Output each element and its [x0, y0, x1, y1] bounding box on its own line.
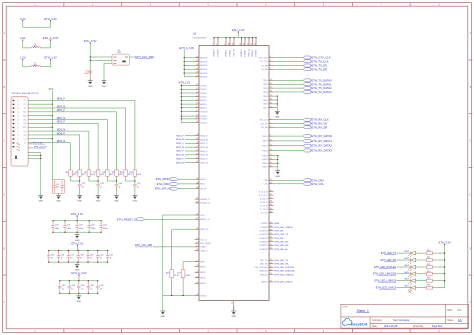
svg-text:DVDDL: DVDDL — [200, 93, 208, 95]
svg-text:27: 27 — [270, 154, 272, 156]
svg-text:RXD7: RXD7 — [262, 167, 268, 169]
svg-text:100n: 100n — [55, 228, 59, 230]
flag ETH_RX_DATA0 — [273, 135, 303, 137]
svg-text:1n: 1n — [51, 258, 53, 260]
flag ETH_RX_DATA1 — [273, 140, 303, 142]
svg-text:KSZ9031RNX: KSZ9031RNX — [192, 37, 206, 39]
wire pair join 2 — [107, 176, 116, 181]
svg-text:RJ45 JACK_USB+LAN 1X1T+4S: RJ45 JACK_USB+LAN 1X1T+4S — [11, 92, 39, 95]
svg-text:MDI1_P: MDI1_P — [200, 143, 208, 145]
pins LED outs — [269, 259, 273, 261]
svg-text:S_TX_P: S_TX_P — [260, 209, 268, 211]
svg-text:S_CLK_P: S_CLK_P — [259, 195, 269, 197]
svg-text:14: 14 — [196, 99, 198, 101]
capacitor C36 — [97, 281, 99, 286]
svg-text:Date:: Date: — [372, 325, 378, 328]
svg-text:GND: GND — [76, 301, 81, 303]
svg-text:44: 44 — [270, 222, 272, 224]
capacitor C15 — [134, 183, 136, 186]
capacitor C13 — [97, 183, 99, 186]
ground osc2 — [102, 81, 107, 84]
svg-text:10: 10 — [270, 140, 272, 142]
svg-text:AVDDL: AVDDL — [225, 49, 228, 57]
svg-text:1n: 1n — [90, 288, 92, 290]
svg-text:ETH_CLK_25M: ETH_CLK_25M — [135, 55, 154, 59]
svg-text:9: 9 — [270, 135, 271, 137]
svg-text:LDO_O: LDO_O — [200, 239, 207, 241]
capacitor C35 — [87, 281, 89, 286]
svg-text:49.9: 49.9 — [137, 174, 141, 176]
svg-text:S_OUT: S_OUT — [261, 213, 269, 215]
svg-text:6: 6 — [270, 64, 271, 66]
capacitor C23 — [88, 221, 90, 226]
svg-text:2021-10-25: 2021-10-25 — [384, 324, 398, 328]
bus bankB — [49, 250, 108, 252]
svg-text:S_CLK_N: S_CLK_N — [259, 191, 269, 193]
svg-text:Your Company: Your Company — [393, 318, 411, 322]
svg-text:DVDDL: DVDDL — [200, 116, 208, 118]
svg-text:ETH_MDIO: ETH_MDIO — [156, 177, 170, 181]
svg-text:AVDDH: AVDDH — [200, 72, 208, 75]
svg-text:ETH_RX_DATA1: ETH_RX_DATA1 — [312, 139, 333, 143]
svg-text:MDI2_M: MDI2_M — [176, 155, 184, 157]
inductor L2 — [31, 66, 41, 67]
svg-text:MDI2_M: MDI2_M — [57, 129, 66, 131]
svg-text:100n: 100n — [67, 228, 71, 230]
svg-text:DVDDH: DVDDH — [256, 49, 258, 57]
wire MDI row 6 — [28, 135, 80, 170]
svg-text:16: 16 — [196, 106, 198, 108]
svg-text:15: 15 — [251, 43, 253, 45]
svg-text:GND: GND — [96, 201, 101, 203]
svg-text:11: 11 — [233, 43, 235, 45]
svg-text:GND: GND — [275, 176, 280, 178]
svg-text:33: 33 — [196, 294, 198, 296]
svg-text:HSDAC_P: HSDAC_P — [200, 198, 210, 201]
svg-text:RX_ER: RX_ER — [261, 127, 268, 129]
svg-text:R16: R16 — [166, 273, 169, 275]
svg-text:LED3: LED3 — [404, 258, 409, 260]
svg-text:INT_N: INT_N — [200, 188, 206, 190]
flag ETH_TX_CLK — [273, 60, 303, 62]
svg-text:RCT: RCT — [23, 116, 26, 118]
wires RXD4-7 gnd — [273, 155, 277, 157]
svg-text:U1: U1 — [193, 32, 197, 36]
svg-text:ETH_TX_DATA0: ETH_TX_DATA0 — [312, 78, 333, 82]
svg-text:PME_N2: PME_N2 — [200, 229, 209, 231]
svg-text:ETH_1.2V: ETH_1.2V — [179, 81, 191, 84]
svg-text:RXD4: RXD4 — [262, 155, 268, 157]
svg-text:AVDDL: AVDDL — [200, 99, 208, 102]
svg-text:COMPU2: COMPU2 — [259, 234, 269, 236]
svg-text:73: 73 — [270, 269, 272, 271]
resistor R7 — [96, 170, 100, 176]
ground bottom — [231, 311, 236, 314]
svg-text:RD-: RD- — [24, 119, 27, 121]
svg-text:ETH_MDC: ETH_MDC — [157, 182, 170, 186]
wire MDI row 2 — [28, 112, 116, 170]
svg-text:C12: C12 — [82, 183, 85, 185]
svg-text:MDI3_P: MDI3_P — [57, 133, 66, 135]
svg-text:19: 19 — [196, 118, 198, 120]
svg-text:DGND: DGND — [200, 295, 207, 297]
svg-text:S_RX_N: S_RX_N — [260, 198, 268, 200]
svg-text:GND: GND — [231, 316, 236, 318]
svg-text:TXD3: TXD3 — [263, 92, 269, 94]
svg-text:REV:: REV: — [447, 310, 453, 312]
svg-text:8: 8 — [217, 44, 219, 45]
svg-text:C22: C22 — [79, 225, 82, 227]
svg-text:3: 3 — [270, 126, 271, 128]
svg-text:COMPU6: COMPU6 — [259, 249, 269, 251]
svg-text:ETH_LED_LINK10: ETH_LED_LINK10 — [275, 227, 294, 229]
ground pair 1 — [96, 196, 101, 199]
svg-text:RXD1: RXD1 — [262, 141, 268, 143]
svg-text:44: 44 — [270, 229, 272, 231]
svg-text:ETH_1M: ETH_1M — [275, 231, 284, 233]
svg-text:D: D — [3, 194, 5, 197]
svg-text:MDI2_P: MDI2_P — [176, 151, 184, 153]
svg-text:ETH_CRS: ETH_CRS — [312, 178, 325, 182]
svg-text:19: 19 — [270, 103, 272, 105]
svg-text:GND: GND — [160, 316, 165, 318]
svg-text:ETH_LED_EN: ETH_LED_EN — [275, 245, 289, 247]
svg-text:ETH_LED_BI: ETH_LED_BI — [275, 249, 288, 251]
wire MDI row 0 — [28, 100, 135, 170]
svg-text:44: 44 — [270, 237, 272, 239]
capacitor C26 — [58, 251, 60, 256]
svg-text:GND: GND — [114, 201, 119, 203]
svg-text:C13: C13 — [100, 183, 103, 185]
svg-text:RD+: RD+ — [23, 112, 26, 114]
pin bottom GND — [233, 301, 235, 312]
svg-text:47: 47 — [196, 68, 198, 70]
svg-text:49.9: 49.9 — [100, 174, 104, 176]
ground bankB — [76, 262, 78, 265]
svg-text:DVDDL: DVDDL — [200, 85, 208, 87]
svg-text:LED4: LED4 — [404, 265, 409, 267]
flag ETH_CRS — [273, 179, 303, 181]
svg-text:35: 35 — [270, 208, 272, 210]
svg-text:C33: C33 — [71, 285, 74, 287]
svg-text:11: 11 — [196, 88, 198, 90]
svg-text:C23: C23 — [91, 225, 94, 227]
svg-text:S_RX_P: S_RX_P — [260, 202, 268, 204]
svg-text:RESV: RESV — [200, 266, 206, 268]
wire ISET — [182, 262, 184, 270]
pins reserved — [195, 266, 199, 268]
svg-text:COMPN: COMPN — [260, 227, 268, 229]
svg-text:GND: GND — [102, 86, 107, 88]
svg-text:1n: 1n — [100, 186, 102, 188]
svg-text:21: 21 — [196, 214, 198, 216]
resistor R17 — [181, 270, 185, 278]
svg-text:R9: R9 — [112, 172, 114, 174]
svg-text:R13: R13 — [427, 271, 430, 273]
capacitor C22 — [76, 221, 78, 226]
capacitor C32 — [59, 281, 61, 286]
capacitor C10 — [89, 66, 91, 71]
svg-text:24: 24 — [196, 242, 198, 244]
ground lower-left — [160, 311, 165, 314]
svg-text:53: 53 — [196, 153, 198, 155]
svg-text:HSDAC_N: HSDAC_N — [200, 202, 210, 205]
svg-text:LED7: LED7 — [404, 286, 409, 288]
svg-text:AVDDH: AVDDH — [200, 57, 208, 60]
svg-text:TX_EN: TX_EN — [261, 65, 268, 67]
svg-text:C28: C28 — [80, 254, 83, 256]
svg-text:RXD6: RXD6 — [262, 163, 268, 165]
svg-text:TXD2: TXD2 — [263, 88, 269, 90]
svg-text:R17: R17 — [177, 273, 180, 275]
svg-text:MDI0_M: MDI0_M — [176, 139, 184, 141]
svg-text:C: C — [470, 140, 472, 143]
svg-text:RX_DV: RX_DV — [261, 123, 268, 125]
resistor R11 — [133, 170, 137, 176]
svg-text:44: 44 — [196, 56, 198, 58]
wire MDI row 5 — [28, 131, 89, 170]
svg-text:TD+: TD+ — [23, 100, 26, 102]
wire osc vcc — [89, 44, 91, 81]
svg-text:R12: R12 — [427, 264, 430, 266]
svg-text:TXD7: TXD7 — [263, 108, 269, 110]
svg-text:R5: R5 — [75, 172, 77, 174]
svg-text:GND: GND — [38, 201, 43, 203]
svg-text:MDI0_P: MDI0_P — [200, 135, 208, 137]
svg-text:16: 16 — [270, 91, 272, 93]
svg-text:ETH_RX_ER: ETH_RX_ER — [312, 125, 328, 129]
wire pair join 3 — [126, 176, 135, 181]
svg-text:MDI3_P: MDI3_P — [200, 159, 208, 161]
svg-text:30: 30 — [270, 190, 272, 192]
svg-text:18: 18 — [196, 115, 198, 117]
svg-text:55: 55 — [196, 146, 198, 148]
flag ETH_RX_ER — [273, 126, 303, 128]
capacitor C30 — [97, 251, 99, 256]
svg-text:25M: 25M — [117, 52, 121, 54]
svg-text:47u: 47u — [56, 187, 59, 189]
svg-text:74: 74 — [270, 273, 272, 275]
svg-text:14: 14 — [270, 83, 272, 85]
junction osc — [90, 56, 91, 57]
svg-text:GND: GND — [275, 116, 280, 118]
svg-text:MDI1_M: MDI1_M — [200, 147, 208, 149]
svg-text:1n: 1n — [90, 258, 92, 260]
svg-text:14: 14 — [248, 43, 250, 45]
svg-text:MDI2_M: MDI2_M — [200, 155, 208, 157]
svg-text:44: 44 — [270, 240, 272, 242]
svg-text:ETH_RX_DATA0: ETH_RX_DATA0 — [312, 134, 333, 138]
svg-text:MDI0_P: MDI0_P — [176, 135, 184, 137]
pins LDO — [195, 239, 199, 241]
svg-text:ETH_A_3.3V: ETH_A_3.3V — [180, 47, 195, 50]
svg-text:MDI3_M: MDI3_M — [57, 141, 66, 143]
svg-text:AVDDH: AVDDH — [200, 68, 208, 71]
svg-text:TITLE:: TITLE: — [342, 306, 348, 308]
inductor L1 — [31, 47, 41, 48]
svg-text:36: 36 — [270, 211, 272, 213]
svg-text:LED6: LED6 — [404, 279, 409, 281]
resistor R9 — [115, 170, 119, 176]
svg-text:49.9: 49.9 — [110, 174, 114, 176]
svg-text:CRS: CRS — [263, 180, 268, 182]
svg-text:C31: C31 — [110, 254, 113, 256]
svg-text:ETH_TX_EN: ETH_TX_EN — [312, 64, 328, 68]
svg-text:49.9: 49.9 — [73, 174, 77, 176]
resistor R6 — [87, 170, 91, 176]
svg-text:58: 58 — [196, 134, 198, 136]
svg-text:COMPU4: COMPU4 — [259, 241, 269, 243]
svg-text:32: 32 — [270, 197, 272, 199]
svg-text:21: 21 — [270, 179, 272, 181]
svg-text:1n: 1n — [119, 186, 121, 188]
svg-text:1n: 1n — [110, 258, 112, 260]
svg-text:RESV: RESV — [200, 283, 206, 285]
svg-text:R10: R10 — [427, 250, 430, 252]
wire MDI row 4 — [28, 123, 98, 169]
svg-text:ETH_RX_DATA2: ETH_RX_DATA2 — [312, 144, 333, 148]
svg-text:C35: C35 — [90, 285, 93, 287]
svg-text:R4: R4 — [66, 172, 68, 174]
svg-text:GND: GND — [56, 201, 61, 203]
svg-text:R7: R7 — [93, 172, 95, 174]
svg-text:GND: GND — [77, 201, 82, 203]
svg-text:ETH_TX_CLK: ETH_TX_CLK — [312, 59, 329, 63]
wire osc pin1 — [90, 56, 112, 58]
svg-text:17: 17 — [270, 95, 272, 97]
svg-text:28: 28 — [196, 265, 198, 267]
svg-text:54: 54 — [196, 150, 198, 152]
svg-text:70: 70 — [270, 259, 272, 261]
svg-text:DVDDL: DVDDL — [245, 49, 247, 57]
op-amp U1 body — [199, 46, 269, 301]
svg-text:18: 18 — [196, 271, 198, 273]
svg-text:4.99K: 4.99K — [185, 275, 191, 277]
title block — [341, 304, 469, 328]
svg-text:11: 11 — [270, 144, 272, 146]
svg-text:15: 15 — [270, 87, 272, 89]
svg-text:35: 35 — [196, 178, 198, 180]
wire osc gnd2 — [104, 63, 112, 81]
capacitor C12 — [79, 183, 81, 186]
svg-text:17: 17 — [196, 260, 198, 262]
svg-text:R11: R11 — [129, 172, 132, 174]
svg-text:19: 19 — [196, 276, 198, 278]
svg-text:100n: 100n — [79, 228, 83, 230]
svg-text:DVDDL: DVDDL — [200, 119, 208, 121]
svg-text:42: 42 — [196, 218, 198, 220]
svg-text:LED2: LED2 — [404, 251, 409, 253]
svg-text:RXD0: RXD0 — [262, 136, 268, 138]
pins HSDAC — [195, 198, 199, 200]
svg-text:TXD4: TXD4 — [263, 96, 269, 98]
svg-text:TXD6: TXD6 — [263, 104, 269, 106]
svg-text:MDI0_M: MDI0_M — [57, 106, 66, 108]
svg-text:ETH_LED_LINK10: ETH_LED_LINK10 — [275, 282, 294, 284]
svg-text:C20: C20 — [55, 225, 58, 227]
svg-text:12: 12 — [270, 149, 272, 151]
svg-text:XTAL_O: XTAL_O — [200, 249, 208, 252]
flag ETH_RX_DV — [273, 123, 303, 125]
svg-text:C24: C24 — [103, 225, 106, 227]
svg-text:GND: GND — [275, 223, 280, 225]
pins strap config — [269, 222, 273, 224]
svg-text:DVDDL: DVDDL — [200, 97, 208, 99]
svg-text:52: 52 — [196, 157, 198, 159]
capacitor C33 — [68, 281, 70, 286]
svg-text:C27: C27 — [70, 254, 73, 256]
svg-text:RXD5: RXD5 — [262, 159, 268, 161]
svg-text:49.9: 49.9 — [119, 174, 123, 176]
svg-text:DVDDL: DVDDL — [200, 89, 208, 91]
ground pair 0 — [77, 196, 82, 199]
svg-text:AVDDL: AVDDL — [200, 107, 208, 110]
svg-text:12: 12 — [240, 43, 242, 45]
svg-text:75: 75 — [270, 281, 272, 283]
flag ETH_RX_DATA2 — [273, 145, 303, 147]
svg-text:31: 31 — [270, 194, 272, 196]
svg-text:100n: 100n — [84, 73, 88, 75]
pins serdes — [269, 191, 273, 193]
svg-text:MDI1_P: MDI1_P — [176, 143, 184, 145]
ground pair 3 — [133, 196, 138, 199]
flag ETH_RX_DATA3 — [273, 150, 303, 152]
resistor R4 — [69, 170, 73, 176]
svg-text:20: 20 — [196, 282, 198, 284]
bus bankC — [60, 280, 98, 282]
svg-text:ETH_TX_ER: ETH_TX_ER — [312, 67, 328, 71]
svg-text:MDC: MDC — [200, 184, 205, 186]
svg-text:7: 7 — [213, 44, 215, 45]
svg-text:56: 56 — [196, 142, 198, 144]
flag ETH_TX_ER — [273, 68, 303, 70]
ground C18 — [56, 196, 61, 199]
svg-text:49.9: 49.9 — [128, 174, 132, 176]
svg-text:R11: R11 — [427, 257, 430, 259]
capacitor C29 — [87, 251, 89, 256]
flag ETH_TX_DATA2 — [273, 87, 303, 89]
svg-text:R6: R6 — [84, 172, 86, 174]
ground osc1 — [89, 78, 91, 81]
svg-text:51: 51 — [196, 161, 198, 163]
svg-text:20: 20 — [270, 106, 272, 108]
svg-text:TCT: TCT — [23, 104, 26, 106]
svg-text:71: 71 — [270, 262, 272, 264]
svg-text:72: 72 — [270, 266, 272, 268]
svg-text:23: 23 — [196, 238, 198, 240]
svg-text:DVDDL: DVDDL — [200, 122, 208, 124]
svg-text:DVDDL: DVDDL — [230, 49, 232, 57]
svg-text:49: 49 — [196, 75, 198, 77]
svg-text:MDIO: MDIO — [200, 179, 206, 181]
svg-text:DVDDH: DVDDH — [200, 111, 208, 113]
wire MDI row 1 — [28, 108, 126, 170]
wires TXD4-7 gnd — [273, 95, 277, 97]
flag ETH_TX_DATA3 — [273, 91, 303, 93]
svg-text:20: 20 — [196, 121, 198, 123]
svg-text:RESV: RESV — [200, 278, 206, 280]
svg-text:33: 33 — [270, 201, 272, 203]
ground bankA — [76, 232, 78, 235]
svg-text:22: 22 — [270, 182, 272, 184]
svg-text:ETH_LED_RX: ETH_LED_RX — [275, 264, 289, 266]
capacitor C21 — [64, 221, 66, 226]
svg-text:34: 34 — [270, 204, 272, 206]
svg-text:MDI1_M: MDI1_M — [57, 118, 66, 120]
svg-text:10: 10 — [229, 43, 231, 45]
wire pair join 1 — [89, 176, 98, 181]
svg-text:40: 40 — [196, 198, 198, 200]
